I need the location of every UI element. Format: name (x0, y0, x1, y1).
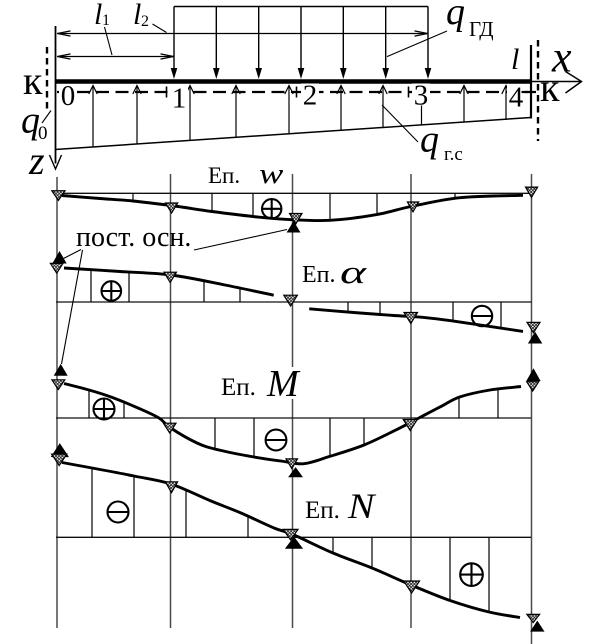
alpha diagram baseline (56, 301, 532, 303)
grid line station 1 (170, 174, 172, 628)
support reaction arrow 3 (189, 87, 191, 140)
w station-3 node marker (407, 202, 418, 212)
distributed load q_ГД box top edge (174, 6, 428, 8)
load arrowhead 4 (298, 68, 305, 79)
alpha hatching left (90, 270, 92, 302)
svg-text:к: к (23, 58, 43, 103)
Ep. M label (219, 367, 303, 399)
M hatching negative (214, 418, 216, 449)
M station-4 node marker (527, 382, 539, 391)
support reaction arrow 1 (92, 87, 94, 147)
station cross tick 1 (166, 87, 168, 98)
x-axis (531, 81, 582, 83)
w station-2 support triangle (288, 222, 300, 232)
station cross tick 2 (296, 87, 298, 98)
hydrostatic load trapezoid bottom edge (55, 118, 531, 150)
load arrowhead 1 (171, 68, 178, 79)
svg-text:x: x (551, 33, 572, 82)
w station-2 node marker (290, 214, 303, 225)
load arrow shaft 4 (300, 7, 302, 71)
w station-4 node marker (526, 187, 538, 197)
q0 leader (42, 111, 51, 124)
x-axis arrowhead (566, 72, 582, 94)
M curve (64, 384, 521, 464)
svg-text:α: α (340, 255, 367, 291)
load arrowhead 6 (382, 68, 389, 79)
svg-text:M: M (266, 363, 301, 405)
svg-text:q: q (420, 119, 439, 161)
M negative sign (266, 430, 287, 451)
load arrowhead 7 (425, 68, 432, 79)
leader to M support (62, 250, 83, 364)
grid line station 0 (56, 177, 58, 628)
right cut dashed line (537, 40, 539, 141)
N curve (62, 463, 520, 618)
svg-text:1: 1 (102, 12, 110, 29)
w station-0 node marker (52, 191, 65, 201)
svg-text:Еп.: Еп. (208, 163, 240, 188)
l2 leader (153, 24, 167, 33)
svg-text:4: 4 (509, 82, 524, 114)
w curve hatching (132, 193, 134, 201)
w positive sign (262, 199, 281, 218)
station number 0 halo (59, 84, 77, 106)
M station-1 node marker (163, 423, 176, 433)
right end extension line (530, 45, 532, 119)
z-axis arrowhead (50, 155, 62, 169)
svg-text:l: l (511, 43, 519, 76)
alpha station-4 node marker (527, 322, 540, 332)
svg-text:пост. осн.: пост. осн. (76, 222, 191, 253)
alpha station-4 support triangle (529, 333, 542, 343)
N diagram baseline (56, 536, 531, 538)
N station-0 support triangle (52, 444, 69, 457)
station number 1 halo (170, 87, 188, 109)
M positive sign left (94, 399, 115, 420)
support reaction arrow 10 (505, 87, 507, 119)
N hatching positive right (332, 537, 334, 553)
left end extension line / z-axis line (55, 26, 57, 164)
load arrow shaft 5 (342, 7, 344, 71)
N positive sign (460, 563, 483, 586)
support reaction arrow 7 (382, 87, 384, 128)
leader to w support (194, 230, 287, 251)
Ep. alpha label (299, 258, 374, 286)
svg-text:0: 0 (61, 80, 76, 112)
alpha curve left branch (64, 268, 274, 295)
support reaction arrow 4 (235, 87, 237, 137)
support reaction arrow 9 (463, 87, 465, 122)
load arrow shaft 2 (215, 7, 217, 71)
w station-1 node marker (165, 203, 177, 213)
support reaction arrow 2 (136, 87, 138, 144)
M station-0 node marker (52, 380, 65, 390)
alpha negative sign (472, 306, 492, 326)
M station-3 node marker (403, 420, 417, 431)
support reaction arrow 6 (340, 87, 342, 130)
Ep. N label (303, 490, 383, 522)
M station-4 support triangle (527, 369, 540, 380)
load arrow shaft 6 (385, 7, 387, 71)
alpha station-2 node marker (284, 295, 298, 306)
l1 leader (105, 27, 113, 55)
alpha station-0 support triangle (53, 252, 66, 263)
svg-text:Еп.: Еп. (305, 497, 340, 524)
svg-text:q: q (446, 0, 465, 33)
svg-text:1: 1 (172, 83, 187, 115)
load arrow shaft 3 (258, 7, 260, 71)
svg-text:ГД: ГД (469, 17, 494, 41)
N station-0 node marker (52, 454, 67, 465)
svg-text:Еп.: Еп. (221, 374, 256, 401)
load arrowhead 5 (340, 68, 347, 79)
N station-2 support triangle (286, 538, 302, 549)
left cut dashed line (46, 47, 48, 111)
N station-4 support triangle (531, 622, 544, 632)
load arrowhead 2 (213, 68, 220, 79)
grid line station 2 (292, 174, 294, 628)
dimension line l1 (57, 56, 174, 58)
station tick 4 (522, 91, 529, 93)
load arrow shaft 7 (427, 7, 429, 71)
M diagram baseline (56, 417, 531, 419)
svg-text:2: 2 (303, 80, 318, 112)
dimension line l2 (57, 33, 428, 35)
N station-2 node marker (283, 529, 298, 540)
leader to alpha support (64, 250, 82, 259)
N negative sign (108, 502, 129, 523)
svg-text:3: 3 (414, 80, 429, 112)
load arrowhead 3 (255, 68, 262, 79)
alpha station-3 node marker (404, 313, 418, 324)
svg-text:N: N (347, 487, 376, 527)
alpha station-1 node marker (164, 272, 176, 282)
station number 3 halo (412, 84, 430, 106)
svg-text:2: 2 (141, 13, 149, 30)
q_г.с leader (382, 105, 418, 142)
station number 2 halo (301, 84, 319, 106)
alpha positive sign (102, 281, 122, 301)
w diagram baseline (56, 192, 531, 194)
svg-text:z: z (28, 138, 45, 183)
N station-3 node marker (404, 581, 420, 593)
grid line station 4 (531, 174, 533, 644)
svg-text:0: 0 (38, 123, 48, 144)
station cross tick 3 (408, 87, 410, 98)
support reaction arrow 8 (421, 98, 423, 125)
M hatching left positive (88, 390, 90, 418)
q_ГД leader (387, 31, 447, 57)
N station-1 node marker (165, 482, 177, 493)
support reaction arrow 5 (288, 87, 290, 134)
svg-text:Еп.: Еп. (302, 262, 336, 288)
load arrow shaft 1 (173, 7, 175, 71)
grid line station 3 (410, 174, 412, 628)
alpha station-0 node marker (50, 263, 63, 273)
alpha hatching right (347, 302, 349, 312)
beam axis dashed centerline (57, 91, 536, 93)
svg-text:г.с: г.с (444, 144, 463, 165)
station number 4 halo (507, 86, 525, 108)
M station-2 node marker (286, 459, 298, 469)
N hatching negative left (91, 468, 93, 537)
M hatching right positive (458, 397, 460, 418)
alpha curve right branch (309, 309, 523, 332)
beam (hull girder) (55, 79, 531, 84)
N station-4 node marker (527, 614, 540, 622)
M station-2 support triangle (289, 468, 302, 477)
svg-text:w: w (259, 159, 284, 190)
w curve (62, 195, 523, 220)
M station-0 support triangle (55, 365, 67, 375)
